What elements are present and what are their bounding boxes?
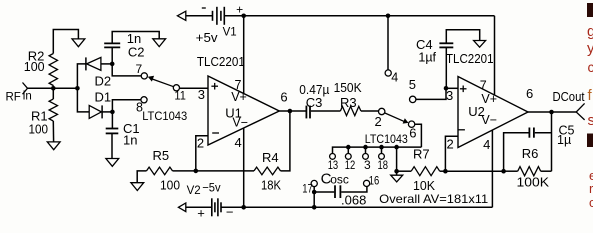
- wire R2 top to ground: [53, 30, 78, 54]
- svg-text:4: 4: [235, 135, 242, 150]
- wire C1 bottom to ground: [111, 133, 113, 158]
- wire pin 12 stem: [347, 147, 349, 153]
- U2 - input symbol: [458, 129, 465, 131]
- resistor R1: [49, 99, 57, 121]
- node U1 V- on rail: [241, 205, 246, 210]
- node C4/U2 input junction: [444, 86, 449, 91]
- red text fragment 7: [587, 134, 593, 148]
- svg-text:+5v: +5v: [196, 30, 218, 45]
- svg-text:V2: V2: [187, 185, 201, 197]
- pin 17 contact: [311, 180, 317, 186]
- pin 6 contact: [408, 121, 414, 127]
- node diode junction: [75, 86, 80, 91]
- wire R4 to U1 output: [281, 111, 290, 171]
- V1 minus tick: [202, 7, 206, 9]
- svg-text:3: 3: [198, 87, 205, 102]
- svg-text:C3: C3: [306, 95, 323, 110]
- wire C3 to R3: [311, 110, 341, 112]
- svg-text:3: 3: [364, 158, 371, 172]
- DC output terminal: [576, 103, 584, 120]
- wire R1 top lead: [52, 88, 54, 99]
- svg-text:18K: 18K: [261, 178, 282, 192]
- svg-text:D2: D2: [95, 74, 112, 89]
- resistor R6: [518, 167, 541, 176]
- svg-text:6: 6: [526, 86, 533, 101]
- wire node to R4: [196, 170, 254, 172]
- svg-text:R5: R5: [153, 148, 170, 163]
- battery V2: [211, 198, 213, 216]
- wire pin 11 to U1 +input: [180, 87, 209, 89]
- wire pin 17 down: [313, 187, 315, 208]
- switch arm 2-6: [385, 113, 404, 121]
- ground at C2: [153, 39, 166, 47]
- svg-text:150K: 150K: [334, 81, 363, 95]
- svg-text:D1: D1: [95, 90, 112, 105]
- wire rail to pin 4: [387, 16, 389, 70]
- pin 7 contact: [141, 73, 147, 79]
- V1 terminal arrow: [177, 11, 185, 20]
- V2 terminal arrow: [178, 203, 185, 212]
- svg-text:16: 16: [369, 174, 380, 188]
- wire Cosc to pin 16: [341, 186, 367, 192]
- wire C4 top to ground: [446, 30, 479, 44]
- wire ground to R5: [137, 171, 146, 183]
- capacitor C4: [439, 42, 453, 44]
- U1 - input symbol: [212, 132, 219, 134]
- svg-text:2: 2: [375, 114, 382, 129]
- wire pin 3 stem: [365, 147, 367, 153]
- wire to Cosc: [314, 191, 334, 193]
- wire C5 left lead: [504, 133, 529, 172]
- wire +5v rail: [224, 15, 494, 17]
- svg-text:18: 18: [378, 158, 389, 172]
- wire pin 6 to bus: [415, 124, 422, 147]
- wire C5 right lead: [535, 132, 552, 134]
- wire C4 to U2 input: [445, 47, 447, 88]
- wire -5v rail: [221, 206, 492, 208]
- wire R7 to U2 pin2 node: [440, 170, 446, 172]
- node C5/R6 junction: [501, 169, 506, 174]
- node D1/C1/pin8 junction: [110, 110, 115, 115]
- wire R6 left lead: [504, 170, 518, 172]
- ground at bus: [391, 175, 403, 182]
- svg-text:100: 100: [29, 122, 49, 137]
- svg-text:.068: .068: [341, 193, 366, 208]
- svg-text:c: c: [588, 59, 593, 75]
- svg-text:s: s: [588, 112, 593, 129]
- wire U1 inverting input: [196, 136, 208, 171]
- wire pin 18 stem: [381, 147, 383, 153]
- svg-text:C2: C2: [128, 45, 145, 60]
- svg-text:5: 5: [409, 77, 416, 92]
- wire C2 bottom lead: [111, 48, 113, 64]
- pin 16 contact: [364, 180, 370, 186]
- wire ground bus: [333, 147, 422, 153]
- svg-text:100: 100: [160, 178, 180, 193]
- svg-text:7: 7: [480, 79, 487, 93]
- svg-text:V+: V+: [231, 90, 247, 104]
- svg-text:R7: R7: [413, 147, 430, 162]
- resistor R7: [411, 167, 440, 176]
- wire R1 bottom lead: [52, 121, 54, 142]
- svg-text:10K: 10K: [413, 178, 435, 193]
- svg-text:4: 4: [483, 137, 490, 152]
- wire R6 right lead: [541, 170, 552, 172]
- svg-text:R6: R6: [522, 146, 539, 161]
- svg-text:100K: 100K: [517, 176, 550, 190]
- wire U1 output: [279, 110, 306, 112]
- wire node to pin 7: [112, 64, 141, 76]
- svg-text:osc: osc: [330, 173, 349, 187]
- wire D1 cathode to node: [102, 111, 112, 113]
- svg-text:−5v: −5v: [202, 180, 220, 194]
- wire rail to U2 V+: [494, 16, 496, 96]
- diode D1: [89, 105, 101, 118]
- svg-text:C4: C4: [416, 37, 433, 52]
- svg-text:g: g: [587, 23, 593, 40]
- wire bus to ground: [396, 147, 398, 175]
- red text fragment 1: [587, 3, 593, 17]
- node bus ground tap: [394, 145, 399, 150]
- svg-text:V1: V1: [223, 26, 237, 38]
- ground at R2 top: [72, 39, 85, 47]
- capacitor C1: [106, 128, 119, 130]
- node U1 V+ on rail: [241, 14, 246, 19]
- ground at R5: [131, 183, 144, 191]
- node R7 ground junction: [394, 169, 399, 174]
- svg-text:6: 6: [280, 90, 287, 105]
- wire R5 to node: [173, 170, 196, 172]
- svg-text:LTC1043: LTC1043: [142, 109, 187, 123]
- pin 8 contact: [141, 97, 147, 103]
- svg-text:1n: 1n: [123, 133, 137, 148]
- wire U2 inverting input: [445, 136, 458, 171]
- ground below R1: [47, 142, 60, 150]
- wire R2 bottom lead: [52, 86, 54, 89]
- pin 12 contact: [345, 154, 351, 160]
- wire into U2 +input: [446, 87, 458, 89]
- pin 13 contact: [330, 154, 336, 160]
- svg-text:2: 2: [197, 135, 204, 150]
- wire to D2 cathode: [77, 64, 85, 88]
- diode D2: [85, 57, 87, 70]
- pin 3 contact: [363, 154, 369, 160]
- node bus pin18: [379, 145, 384, 150]
- svg-text:V−: V−: [481, 113, 497, 127]
- wire input node: [28, 87, 78, 89]
- op-amp U1 TLC2201: [208, 76, 279, 145]
- svg-text:DCout: DCout: [553, 90, 585, 104]
- svg-text:1µf: 1µf: [418, 51, 436, 65]
- pin 5 contact: [410, 96, 416, 102]
- switch arm wire: [152, 79, 173, 87]
- wire U2 V- supply: [491, 130, 493, 207]
- svg-text:100: 100: [24, 59, 45, 74]
- RF input terminal: [23, 83, 28, 95]
- pin 11 pole contact: [173, 85, 179, 91]
- resistor R2: [49, 54, 57, 86]
- resistor R5: [147, 167, 173, 175]
- wire V2 left lead: [186, 206, 212, 208]
- svg-text:+: +: [197, 206, 205, 221]
- wire C1 top lead: [111, 112, 113, 128]
- svg-text:TLC2201: TLC2201: [197, 54, 245, 69]
- svg-text:1µ: 1µ: [557, 133, 571, 147]
- svg-text:r: r: [589, 181, 593, 196]
- svg-text:V−: V−: [232, 116, 248, 130]
- wire U1 V+ supply: [243, 16, 245, 94]
- ground at C4: [474, 41, 486, 48]
- wire R3 to pin 2: [361, 110, 379, 112]
- svg-text:c: c: [589, 195, 593, 210]
- node pin17 on rail: [312, 205, 317, 210]
- wire D2 anode to node: [101, 63, 112, 65]
- pin 2 contact: [379, 108, 385, 114]
- svg-text:12: 12: [345, 158, 356, 172]
- capacitor Cosc: [334, 185, 336, 198]
- svg-text:4: 4: [391, 71, 398, 85]
- pin 18 contact: [379, 154, 385, 160]
- capacitor C5: [528, 128, 530, 138]
- node R5/R4 junction: [194, 169, 199, 174]
- svg-text:R4: R4: [262, 150, 279, 165]
- node bus pin12: [346, 145, 351, 150]
- U2 + input symbol: [460, 88, 467, 90]
- capacitor C3: [305, 106, 307, 119]
- wire C2 top to ground: [112, 32, 159, 44]
- svg-text:7: 7: [136, 62, 143, 76]
- node pin4 feed on rail: [386, 14, 391, 19]
- switch arm 2-6 arrowhead: [403, 118, 409, 123]
- wire ground node to R7: [397, 170, 412, 172]
- wire output to feedback: [551, 112, 553, 171]
- node D2/C2/switch junction: [110, 62, 115, 67]
- capacitor C2: [104, 46, 120, 48]
- wire U2 output: [528, 111, 576, 113]
- op-amp U2 TLC2201: [458, 77, 528, 148]
- svg-text:RF: RF: [6, 92, 21, 104]
- battery V1: [212, 11, 214, 21]
- svg-text:Overall AV=181x11: Overall AV=181x11: [379, 192, 488, 206]
- U1 + input symbol: [211, 85, 218, 87]
- svg-text:2: 2: [447, 137, 454, 152]
- svg-text:17: 17: [302, 182, 313, 196]
- wire U1 V- supply: [243, 128, 245, 208]
- node R1/R2 junction: [51, 86, 56, 91]
- svg-text:TLC2201: TLC2201: [446, 51, 494, 66]
- pin 4 contact: [385, 70, 391, 76]
- resistor R3: [340, 106, 361, 115]
- node Cosc tap: [312, 190, 317, 195]
- node U2 output junction: [549, 110, 554, 115]
- svg-text:y: y: [587, 40, 593, 57]
- wire pin2 node to R6: [445, 170, 503, 172]
- ground below C1: [106, 159, 119, 167]
- node U2 pin2 junction: [443, 169, 448, 174]
- wire V1 left lead: [186, 15, 213, 17]
- svg-text:3: 3: [446, 88, 453, 103]
- svg-text:R3: R3: [340, 95, 357, 110]
- wire pin 5 to U2 +input: [416, 88, 446, 99]
- svg-text:in: in: [23, 91, 32, 103]
- wire to D1 anode: [77, 88, 89, 112]
- switch arm arrowhead: [148, 76, 154, 82]
- wire D1 node to pin 8: [112, 100, 140, 112]
- svg-text:11: 11: [174, 89, 186, 103]
- resistor R4: [254, 167, 281, 175]
- node bus pin3: [363, 145, 368, 150]
- svg-text:6: 6: [409, 126, 416, 141]
- node U1 output junction: [288, 109, 293, 114]
- svg-text:LTC1043: LTC1043: [365, 132, 408, 146]
